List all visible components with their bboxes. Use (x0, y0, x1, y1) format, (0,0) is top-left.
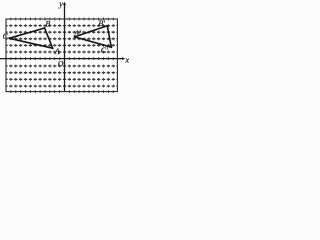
vertex dot A (52, 47, 54, 49)
grid border box (6, 19, 117, 92)
grid horizontal dashed rows (6, 26, 117, 87)
y-axis arrowhead (63, 2, 66, 6)
svg-text:A′: A′ (73, 29, 81, 38)
svg-text:B′: B′ (98, 19, 105, 28)
svg-text:B: B (45, 19, 50, 28)
y-axis (64, 4, 66, 92)
grid vertical tick dashes (11, 18, 113, 94)
svg-text:A: A (54, 47, 60, 56)
background (0, 0, 129, 95)
vertex dot B' (106, 25, 108, 27)
x-axis arrowhead (122, 57, 126, 60)
svg-text:O: O (58, 59, 64, 68)
svg-text:C′: C′ (101, 46, 108, 55)
vertex dot B (44, 27, 46, 29)
svg-text:x: x (125, 56, 130, 65)
vertex dot A' (74, 36, 76, 38)
svg-text:C: C (3, 32, 9, 41)
x-axis (0, 58, 123, 60)
triangle A'B'C' (right) (75, 26, 112, 48)
svg-text:y: y (58, 0, 63, 8)
vertex dot C (8, 37, 10, 39)
vertex dot C' (110, 46, 112, 48)
triangle ABC (left) (9, 28, 52, 48)
